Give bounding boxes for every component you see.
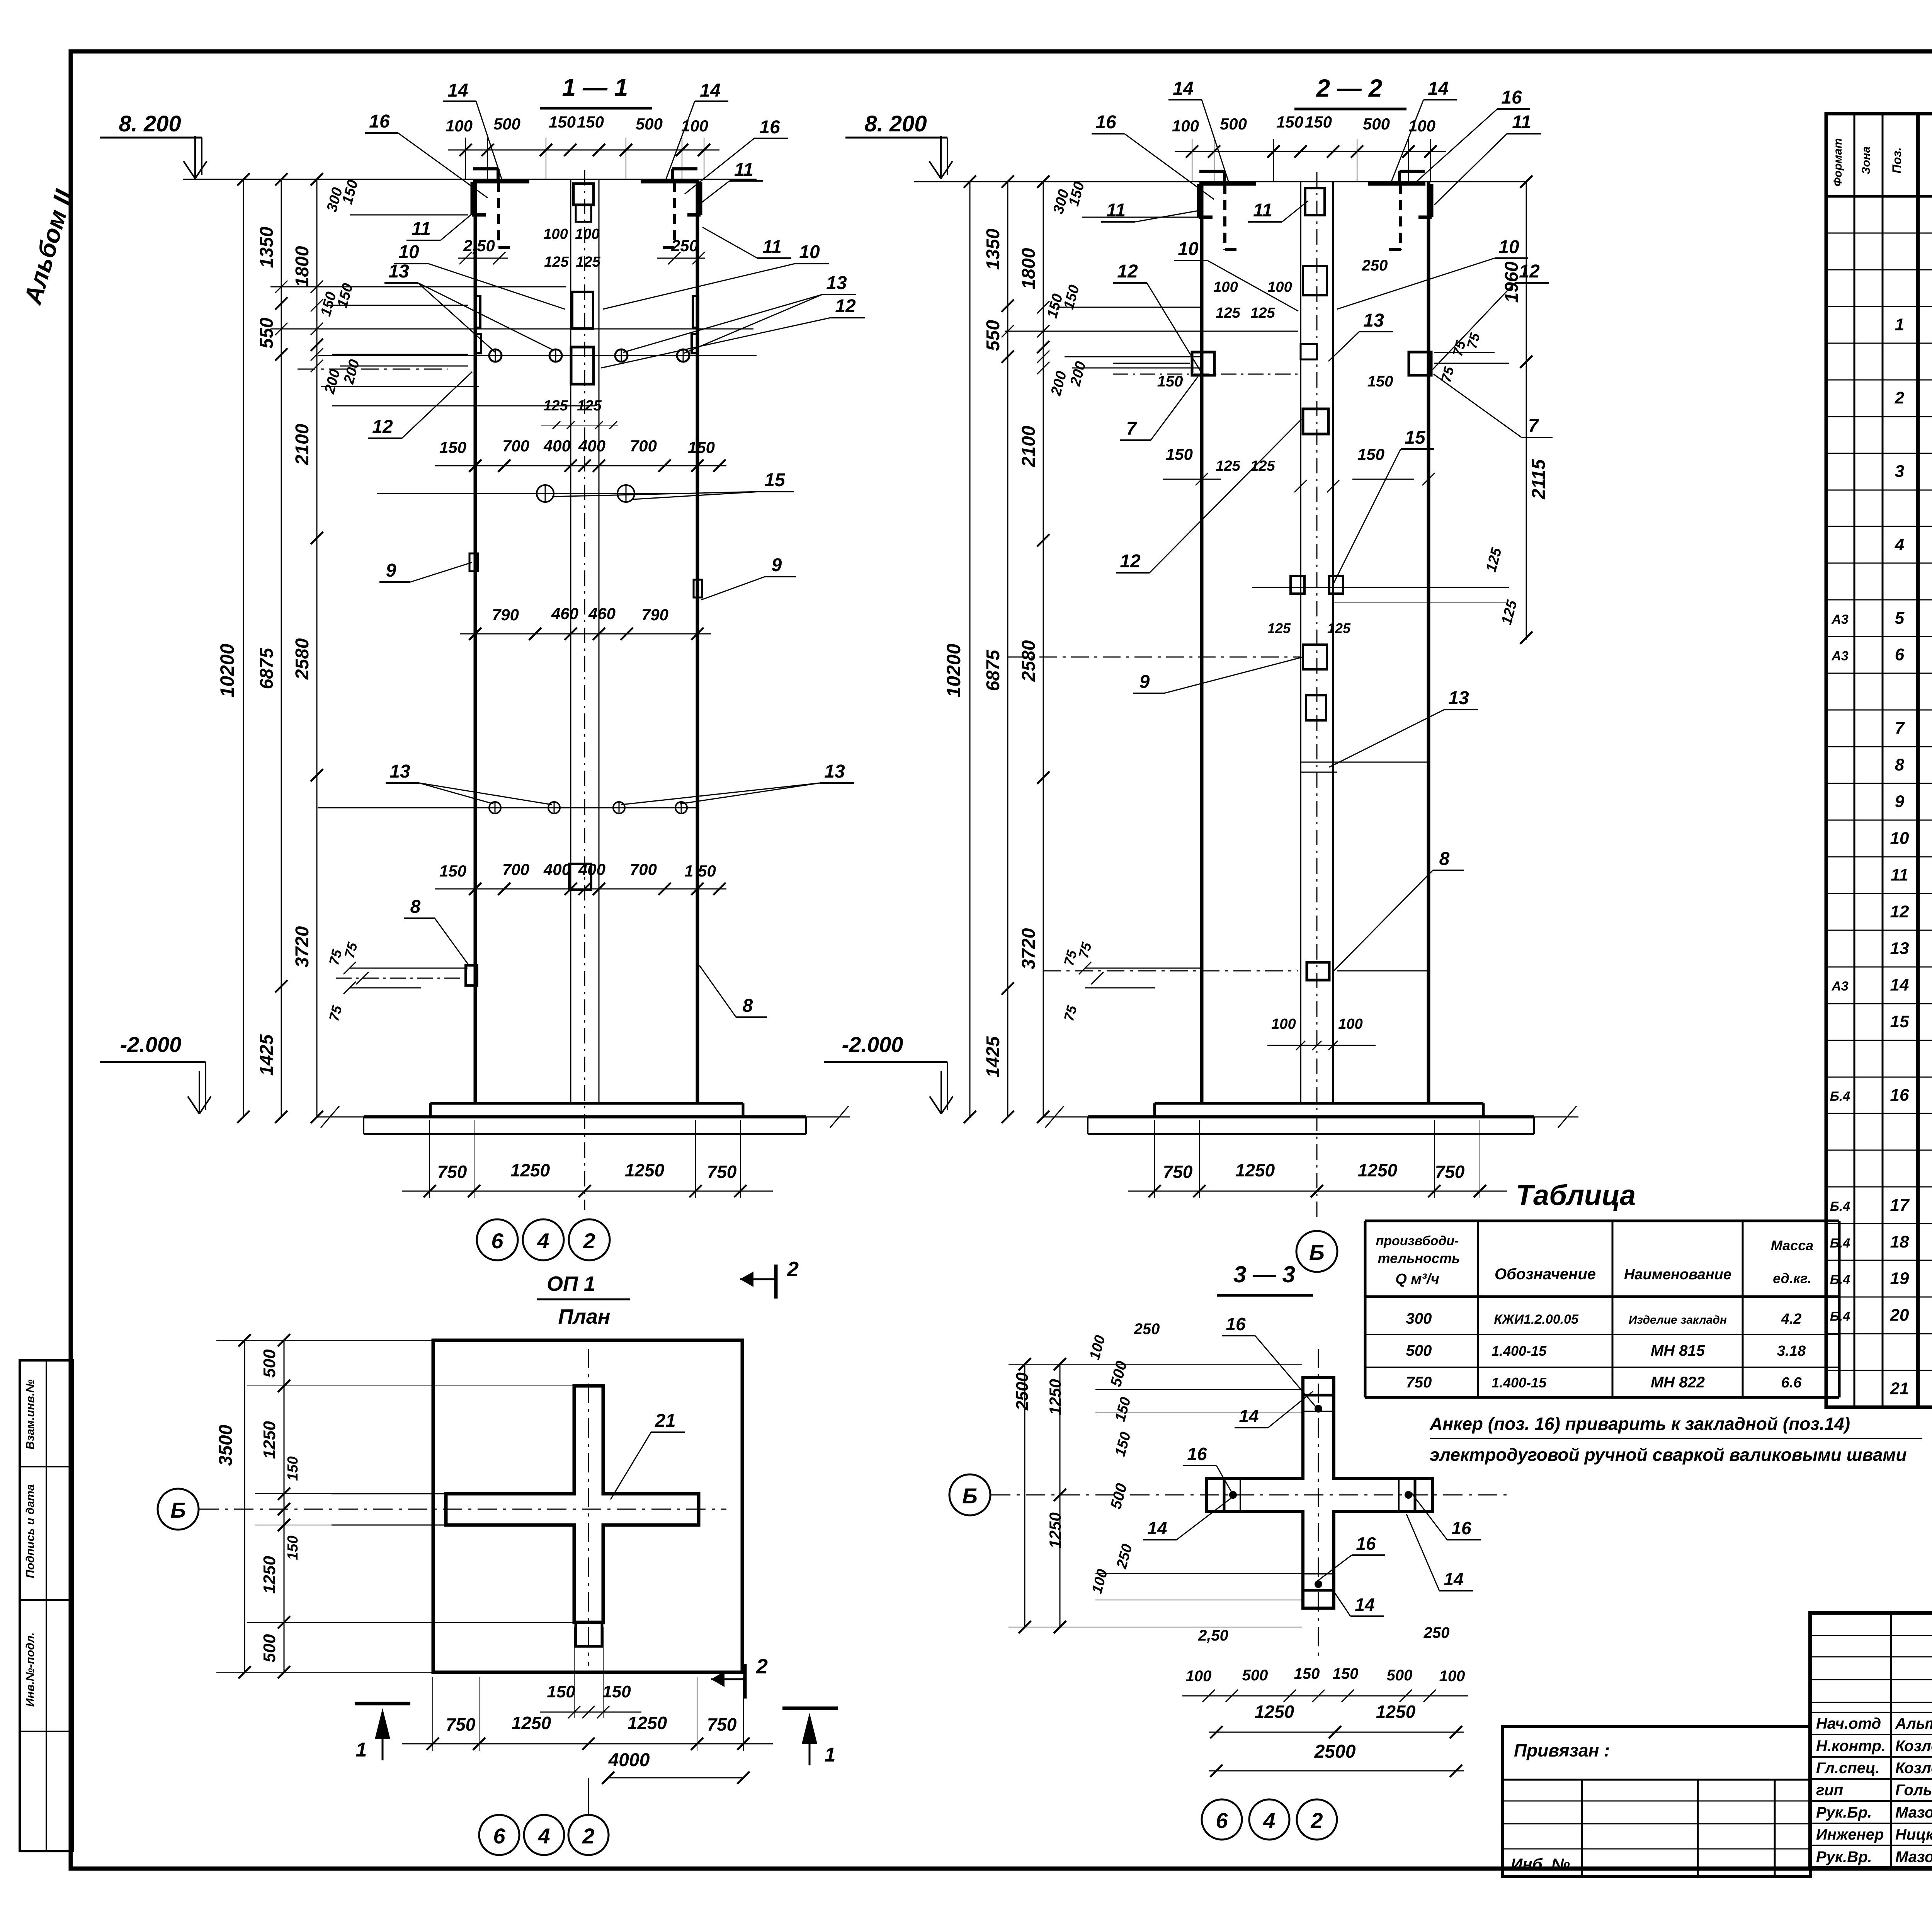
svg-text:150: 150 [577, 113, 604, 131]
svg-text:15: 15 [1405, 427, 1426, 448]
break mark left [321, 1106, 339, 1128]
svg-text:2: 2 [583, 1229, 595, 1253]
svg-text:14: 14 [1239, 1406, 1259, 1426]
svg-text:8. 200: 8. 200 [119, 111, 181, 136]
svg-text:4.2: 4.2 [1781, 1311, 1802, 1327]
svg-text:100: 100 [1439, 1668, 1465, 1685]
svg-text:ед.кг.: ед.кг. [1773, 1270, 1811, 1286]
svg-text:Наименование: Наименование [1624, 1266, 1731, 1283]
svg-text:11: 11 [1512, 112, 1531, 133]
svg-text:14: 14 [700, 80, 720, 101]
svg-text:150: 150 [1357, 445, 1384, 463]
svg-text:Ницкевич: Ницкевич [1895, 1826, 1932, 1843]
small edge marks mid height [469, 553, 478, 571]
svg-text:125: 125 [1216, 305, 1240, 321]
bracket 75/75 left view 1-1 [350, 968, 468, 969]
svg-text:2100: 2100 [1019, 426, 1039, 467]
section marks 1 bottom of plan [355, 1702, 410, 1705]
svg-text:11: 11 [1891, 865, 1908, 884]
svg-text:3: 3 [1895, 462, 1904, 481]
svg-text:150: 150 [1367, 373, 1393, 390]
svg-text:400: 400 [543, 437, 571, 455]
svg-text:2115: 2115 [1529, 459, 1549, 500]
svg-text:15: 15 [764, 470, 786, 490]
axis circle Б plan [158, 1489, 199, 1530]
svg-text:150: 150 [285, 1456, 301, 1481]
svg-text:8: 8 [410, 897, 421, 917]
svg-text:150: 150 [285, 1535, 301, 1560]
svg-text:10: 10 [1178, 239, 1199, 259]
svg-text:16: 16 [1501, 87, 1522, 108]
edge plates view 1-1 [475, 296, 480, 328]
svg-text:500: 500 [260, 1349, 279, 1378]
svg-text:12: 12 [1519, 261, 1540, 282]
svg-text:300: 300 [1406, 1310, 1432, 1327]
svg-text:Взам.инв.№: Взам.инв.№ [24, 1379, 37, 1449]
svg-text:6: 6 [1895, 645, 1905, 664]
column 2-2 web right [1332, 182, 1334, 1103]
svg-text:125: 125 [1267, 620, 1291, 636]
svg-text:125: 125 [577, 398, 602, 414]
svg-text:15: 15 [1890, 1012, 1909, 1031]
svg-text:12: 12 [835, 296, 856, 317]
svg-text:100: 100 [1213, 279, 1238, 295]
svg-text:16: 16 [1890, 1086, 1909, 1105]
svg-text:100: 100 [1172, 117, 1199, 135]
svg-text:А3: А3 [1831, 649, 1849, 664]
svg-text:Масса: Масса [1771, 1237, 1814, 1253]
svg-text:14: 14 [1428, 78, 1448, 99]
svg-text:20: 20 [1890, 1306, 1909, 1325]
svg-text:11: 11 [412, 219, 431, 239]
svg-text:100: 100 [446, 117, 473, 135]
svg-text:Б.4: Б.4 [1830, 1089, 1850, 1104]
svg-text:2: 2 [1310, 1808, 1323, 1833]
svg-text:150: 150 [439, 438, 466, 456]
ground line [364, 1115, 806, 1118]
svg-text:Б: Б [170, 1498, 186, 1522]
svg-text:21: 21 [1890, 1379, 1909, 1398]
svg-text:13: 13 [1363, 310, 1384, 331]
svg-text:1250: 1250 [625, 1160, 665, 1180]
svg-text:750: 750 [1435, 1162, 1465, 1182]
svg-text:Формат: Формат [1832, 138, 1844, 186]
svg-text:Козловичер: Козловичер [1895, 1738, 1932, 1755]
svg-text:150: 150 [439, 862, 466, 880]
svg-text:Подпись и дата: Подпись и дата [24, 1484, 37, 1578]
svg-text:125: 125 [1216, 458, 1240, 474]
svg-text:100: 100 [543, 226, 568, 242]
plan square outline [433, 1340, 742, 1672]
svg-text:9: 9 [386, 560, 396, 581]
svg-text:8. 200: 8. 200 [864, 111, 927, 136]
svg-text:13: 13 [826, 273, 847, 293]
svg-text:А3: А3 [1831, 979, 1849, 994]
svg-text:550: 550 [257, 318, 277, 349]
svg-text:750: 750 [1163, 1162, 1193, 1182]
column 2-2 left edge [1200, 182, 1204, 1103]
svg-text:500: 500 [1220, 115, 1247, 133]
left stamp strip [20, 1360, 73, 1851]
privyazan box [1502, 1727, 1810, 1877]
svg-text:2: 2 [1895, 388, 1905, 407]
svg-text:8: 8 [1439, 849, 1450, 869]
dash line and 9 leader view 2-2 [1008, 657, 1301, 658]
svg-text:14: 14 [1147, 1518, 1167, 1538]
svg-text:7: 7 [1528, 416, 1539, 436]
svg-text:1250: 1250 [1046, 1379, 1064, 1415]
corbel ledge top left 2-2 [1199, 182, 1256, 186]
svg-text:1425: 1425 [257, 1034, 277, 1076]
raised plate right 1-1 [672, 167, 697, 170]
foundation slab bottom [364, 1133, 806, 1135]
svg-text:400: 400 [578, 437, 605, 455]
svg-text:2: 2 [582, 1824, 594, 1848]
svg-text:12: 12 [1120, 551, 1141, 572]
embeds at 1500 view 2-2 [1291, 576, 1304, 594]
svg-text:2 — 2: 2 — 2 [1316, 74, 1383, 102]
guide lines left sub-chain view 2-2 [1057, 307, 1200, 308]
svg-text:1250: 1250 [1046, 1512, 1064, 1548]
svg-text:100: 100 [1408, 117, 1435, 135]
svg-text:2580: 2580 [292, 638, 313, 680]
svg-text:1250: 1250 [512, 1713, 551, 1733]
svg-text:электродуговой ручной сваркой: электродуговой ручной сваркой валиковыми… [1430, 1445, 1907, 1465]
svg-text:4: 4 [537, 1229, 549, 1253]
svg-text:Анкер (поз. 16) приварить к за: Анкер (поз. 16) приварить к закладной (п… [1429, 1414, 1850, 1434]
svg-text:Б.4: Б.4 [1830, 1309, 1850, 1324]
svg-text:150: 150 [602, 1682, 631, 1701]
svg-text:150: 150 [547, 1682, 575, 1701]
svg-text:700: 700 [502, 860, 529, 878]
svg-text:10: 10 [1498, 237, 1519, 257]
svg-text:6: 6 [1216, 1808, 1228, 1833]
svg-text:4: 4 [1263, 1808, 1275, 1833]
svg-text:13: 13 [1448, 688, 1469, 708]
svg-text:Зона: Зона [1860, 146, 1872, 174]
svg-text:1250: 1250 [1358, 1160, 1398, 1180]
edge plate lower left [466, 965, 477, 985]
svg-text:-2.000: -2.000 [842, 1032, 903, 1057]
svg-text:11: 11 [762, 237, 782, 257]
svg-text:Поз.: Поз. [1890, 147, 1904, 174]
svg-text:125: 125 [1250, 458, 1275, 474]
svg-text:1.400-15: 1.400-15 [1492, 1375, 1547, 1391]
svg-text:16: 16 [369, 111, 390, 132]
svg-text:16: 16 [1226, 1314, 1246, 1334]
svg-text:250: 250 [1134, 1321, 1160, 1338]
svg-text:МН 815: МН 815 [1651, 1342, 1705, 1359]
svg-text:1800: 1800 [1019, 248, 1039, 289]
svg-text:Мазо: Мазо [1895, 1804, 1932, 1821]
centerlines 3-3 [991, 1494, 1509, 1496]
svg-text:Гольдина: Гольдина [1895, 1782, 1932, 1799]
svg-text:8: 8 [743, 996, 753, 1016]
svg-text:2500: 2500 [1013, 1372, 1032, 1411]
svg-text:9: 9 [1895, 792, 1905, 811]
axis circles below 3-3 [1202, 1799, 1242, 1840]
cross arm extension lines left [332, 1493, 446, 1494]
svg-text:700: 700 [630, 860, 657, 878]
svg-text:150: 150 [1333, 1665, 1359, 1682]
svg-text:1350: 1350 [983, 228, 1003, 270]
svg-text:Козловичер: Козловичер [1895, 1760, 1932, 1777]
svg-text:10200: 10200 [216, 643, 238, 697]
level line top of column 1-1 [183, 179, 757, 180]
svg-text:21: 21 [655, 1411, 675, 1431]
svg-text:6: 6 [491, 1229, 503, 1253]
svg-text:500: 500 [1242, 1667, 1268, 1684]
svg-text:1800: 1800 [292, 246, 313, 287]
svg-text:7: 7 [1126, 419, 1138, 439]
svg-text:14: 14 [1173, 78, 1193, 99]
plan centerlines [199, 1509, 726, 1510]
svg-text:Б: Б [962, 1484, 978, 1508]
svg-text:КЖИ1.2.00.05: КЖИ1.2.00.05 [1494, 1312, 1579, 1327]
svg-text:тельность: тельность [1378, 1250, 1460, 1266]
plan cross column [446, 1386, 699, 1622]
svg-text:А3: А3 [1831, 612, 1849, 627]
svg-text:Привязан :: Привязан : [1514, 1740, 1610, 1760]
anchor circles row 3 view 1-1 [318, 807, 699, 808]
svg-text:500: 500 [1406, 1342, 1432, 1359]
svg-text:100: 100 [1186, 1668, 1212, 1685]
svg-text:790: 790 [641, 606, 668, 624]
svg-text:150: 150 [1276, 113, 1303, 131]
svg-text:125: 125 [1250, 305, 1275, 321]
svg-text:500: 500 [260, 1634, 279, 1663]
svg-text:10: 10 [398, 242, 419, 262]
svg-text:13: 13 [388, 261, 409, 282]
svg-text:1250: 1250 [628, 1713, 667, 1733]
svg-text:2,50: 2,50 [463, 237, 495, 255]
cross outline 3-3 [1207, 1378, 1432, 1608]
svg-text:1250: 1250 [260, 1421, 279, 1459]
embed plates on web view 1-1 [573, 184, 594, 205]
svg-text:150: 150 [1294, 1665, 1320, 1682]
svg-text:2100: 2100 [292, 424, 313, 465]
svg-text:Таблица: Таблица [1516, 1179, 1636, 1211]
end plates 3-3 [1303, 1394, 1334, 1397]
svg-text:гип: гип [1816, 1782, 1843, 1799]
svg-text:-2.000: -2.000 [120, 1032, 182, 1057]
svg-text:Рук.Вр.: Рук.Вр. [1816, 1848, 1872, 1865]
svg-text:460: 460 [588, 604, 616, 623]
svg-text:4: 4 [1895, 535, 1904, 554]
svg-text:10200: 10200 [943, 643, 964, 697]
svg-text:6875: 6875 [257, 647, 277, 689]
svg-text:1250: 1250 [260, 1556, 279, 1594]
svg-text:150: 150 [1166, 445, 1193, 463]
corbel ledge top right 1-1 [641, 180, 698, 184]
svg-text:ОП 1: ОП 1 [547, 1272, 595, 1295]
svg-text:700: 700 [502, 437, 529, 455]
svg-text:11: 11 [1106, 200, 1126, 221]
svg-text:1 50: 1 50 [684, 862, 716, 880]
svg-text:125: 125 [543, 398, 568, 414]
svg-text:13: 13 [1890, 939, 1909, 958]
svg-text:9: 9 [772, 555, 782, 575]
section mark 2 bottom right of plan [743, 1664, 747, 1699]
anchor circles row 2 (pos 15) view 1-1 [377, 493, 674, 494]
svg-text:750: 750 [437, 1162, 467, 1182]
svg-text:750: 750 [446, 1714, 476, 1734]
svg-text:6.6: 6.6 [1781, 1375, 1802, 1391]
svg-text:Изделие закладн: Изделие закладн [1629, 1314, 1727, 1326]
svg-text:4000: 4000 [608, 1750, 650, 1770]
svg-text:16: 16 [1187, 1444, 1207, 1464]
svg-text:3720: 3720 [1019, 928, 1039, 969]
svg-text:125: 125 [544, 254, 569, 270]
cross bottom tail plan [576, 1622, 602, 1646]
column 1-1 left edge [474, 179, 477, 1103]
svg-text:5: 5 [1895, 609, 1905, 628]
svg-text:Б.4: Б.4 [1830, 1236, 1850, 1251]
dimension chain verticals view 2-2 [969, 182, 971, 1117]
svg-text:400: 400 [543, 860, 571, 878]
svg-text:3720: 3720 [292, 926, 313, 967]
edge plates with 75 marks view 2-2 [1192, 352, 1214, 375]
svg-text:1250: 1250 [1376, 1702, 1416, 1722]
svg-text:150: 150 [688, 438, 715, 456]
top corbel plates view 2-2 [1197, 184, 1201, 217]
svg-text:750: 750 [707, 1714, 737, 1734]
axis circle Б under view 2-2 [1296, 1231, 1337, 1272]
svg-text:11: 11 [1253, 200, 1272, 221]
svg-text:790: 790 [492, 606, 519, 624]
svg-text:13: 13 [389, 761, 410, 782]
svg-text:700: 700 [630, 437, 657, 455]
svg-text:1250: 1250 [1235, 1160, 1275, 1180]
section mark 2 top right of plan [774, 1265, 778, 1299]
svg-text:1 — 1: 1 — 1 [562, 73, 628, 101]
svg-text:Нач.отд: Нач.отд [1816, 1715, 1881, 1732]
svg-text:1250: 1250 [1255, 1702, 1294, 1722]
svg-text:19: 19 [1890, 1269, 1909, 1288]
top corbel plates view 1-1 [471, 182, 474, 215]
column 2-2 centerline [1316, 172, 1318, 1221]
svg-text:6: 6 [493, 1824, 505, 1848]
svg-text:1350: 1350 [257, 226, 277, 268]
svg-text:Б.4: Б.4 [1830, 1199, 1850, 1214]
svg-text:250: 250 [1362, 257, 1388, 274]
svg-text:Обозначение: Обозначение [1495, 1266, 1596, 1283]
svg-text:500: 500 [493, 115, 520, 133]
svg-text:750: 750 [1406, 1374, 1432, 1391]
corbel ledge top left 1-1 [473, 180, 529, 184]
raised plate left 1-1 [473, 167, 498, 170]
svg-text:12: 12 [372, 417, 393, 437]
svg-text:10: 10 [799, 242, 820, 262]
foundation plinth top [430, 1102, 743, 1105]
svg-text:Инженер: Инженер [1816, 1826, 1884, 1843]
svg-text:1: 1 [1895, 315, 1904, 334]
svg-text:Инв.№-подл.: Инв.№-подл. [24, 1632, 37, 1707]
anchor dots 3-3 [1315, 1405, 1322, 1413]
svg-text:9: 9 [1139, 672, 1150, 692]
svg-text:4: 4 [537, 1824, 550, 1848]
column 1-1 right edge [696, 179, 699, 1103]
svg-text:1960: 1960 [1502, 261, 1522, 303]
svg-text:150: 150 [1157, 373, 1183, 390]
svg-text:Мазо: Мазо [1895, 1848, 1932, 1865]
svg-text:150: 150 [549, 113, 576, 131]
bracket 75/75 view 2-2 [1085, 968, 1200, 969]
small dim line 2,50 left view 1-1 [458, 258, 508, 259]
svg-text:16: 16 [1095, 112, 1116, 133]
title block [1810, 1613, 1932, 1868]
svg-text:18: 18 [1890, 1232, 1909, 1251]
svg-text:16: 16 [1356, 1534, 1376, 1554]
corbel ledge top right 2-2 [1368, 182, 1425, 186]
column 1-1 web line left [570, 179, 571, 1103]
svg-text:План: План [558, 1305, 610, 1328]
svg-text:Гл.спец.: Гл.спец. [1816, 1760, 1880, 1777]
guide lines left sub-chain view 1-1 [270, 286, 566, 288]
svg-text:1: 1 [356, 1739, 367, 1761]
svg-text:13: 13 [824, 761, 845, 782]
svg-text:460: 460 [551, 604, 578, 623]
svg-text:750: 750 [707, 1162, 737, 1182]
right chain 1960/2115 view 2-2 [1526, 182, 1527, 640]
svg-text:100: 100 [1338, 1016, 1362, 1032]
svg-text:1.400-15: 1.400-15 [1492, 1343, 1547, 1359]
svg-text:2,50: 2,50 [1198, 1627, 1228, 1644]
svg-text:Н.контр.: Н.контр. [1816, 1738, 1886, 1755]
svg-text:Инб. №: Инб. № [1511, 1855, 1570, 1873]
svg-text:125: 125 [576, 254, 600, 270]
offset line 300 [350, 214, 468, 216]
svg-text:1425: 1425 [983, 1036, 1003, 1077]
axis circles below plan [479, 1815, 519, 1855]
svg-text:14: 14 [1890, 975, 1909, 994]
svg-text:3 — 3: 3 — 3 [1233, 1261, 1295, 1287]
svg-text:400: 400 [578, 860, 605, 878]
raised plate left 2-2 [1199, 170, 1225, 173]
raised plate right 2-2 [1400, 170, 1425, 173]
anchor circles row 1 view 1-1 [318, 355, 757, 356]
svg-text:2580: 2580 [1019, 640, 1039, 682]
svg-text:2: 2 [787, 1258, 799, 1281]
svg-text:Альтшуллер: Альтшуллер [1895, 1715, 1932, 1732]
svg-text:11: 11 [734, 160, 753, 180]
svg-text:100: 100 [575, 226, 599, 242]
svg-text:500: 500 [1387, 1667, 1413, 1684]
svg-text:Б.4: Б.4 [1830, 1273, 1850, 1287]
svg-text:8: 8 [1895, 756, 1905, 774]
level line top of column 2-2 [914, 181, 1526, 182]
svg-text:16: 16 [759, 117, 780, 138]
foundation view 2-2 [1155, 1102, 1483, 1105]
column 1-1 centerline [584, 170, 585, 1210]
svg-text:12: 12 [1117, 261, 1138, 282]
dimension chain verticals view 1-1 [243, 179, 244, 1117]
svg-text:2500: 2500 [1314, 1741, 1356, 1762]
svg-text:произвбоди-: произвбоди- [1376, 1234, 1459, 1248]
embed plates on web view 2-2 [1305, 188, 1325, 215]
svg-text:550: 550 [983, 320, 1003, 351]
svg-text:100: 100 [1267, 279, 1292, 295]
svg-text:МН 822: МН 822 [1651, 1374, 1705, 1391]
axis circle Б 3-3 [949, 1474, 990, 1515]
svg-text:14: 14 [1355, 1595, 1374, 1615]
svg-text:10: 10 [1890, 829, 1909, 848]
svg-text:1: 1 [825, 1744, 836, 1766]
svg-text:Рук.Бр.: Рук.Бр. [1816, 1804, 1872, 1821]
svg-text:7: 7 [1895, 719, 1905, 738]
column 2-2 web left [1300, 182, 1301, 1103]
column 2-2 right edge [1427, 182, 1430, 1103]
